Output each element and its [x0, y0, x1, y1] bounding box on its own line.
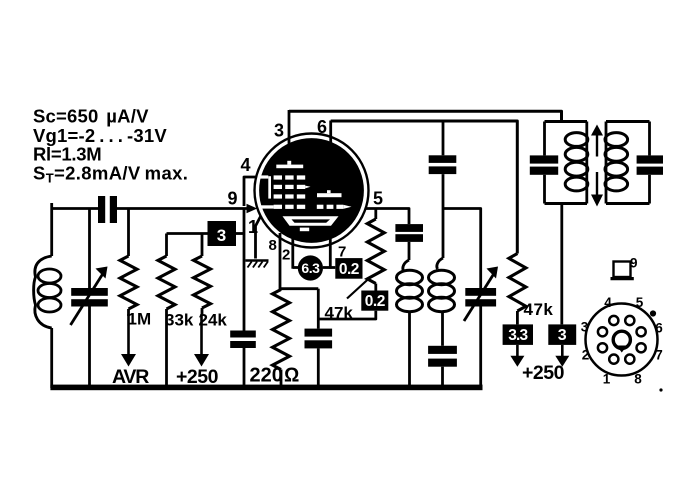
resistor 220	[273, 290, 290, 389]
box 3.3 mA	[503, 324, 533, 345]
svg-text:3.3: 3.3	[508, 327, 528, 344]
label 220	[250, 365, 283, 387]
label 47k screen	[524, 300, 554, 319]
svg-text:0.2: 0.2	[339, 261, 359, 278]
label +250 left	[176, 366, 219, 388]
box 0.2 osc grid	[361, 291, 388, 311]
variable capacitor C1 tuning	[71, 209, 108, 389]
wire anode rail	[289, 111, 562, 123]
capacitor IF secondary	[637, 122, 663, 204]
wire grid node vertical	[243, 209, 246, 331]
leader 47k	[347, 278, 370, 299]
inductor IF primary winding	[565, 122, 588, 204]
label pin 7	[338, 244, 346, 261]
box 0.2 heater	[335, 258, 362, 279]
wire osc node	[443, 209, 481, 289]
inductor osc left winding	[397, 242, 423, 388]
svg-text:3: 3	[217, 226, 226, 245]
pin 9 arrowhead	[247, 204, 258, 213]
svg-text:Rl=1.3M: Rl=1.3M	[33, 144, 101, 165]
pin 6 lead	[329, 121, 332, 144]
wire screen rail	[331, 121, 518, 254]
tube socket bottom view	[586, 304, 658, 376]
svg-text:1: 1	[603, 372, 611, 387]
svg-text:6: 6	[655, 321, 663, 336]
svg-text:1: 1	[248, 217, 258, 237]
svg-text:5: 5	[636, 295, 644, 310]
arrow to +250 left	[194, 314, 209, 367]
label +250 right	[522, 362, 565, 384]
label pin 9	[228, 189, 238, 209]
pin 1 lead	[256, 216, 262, 259]
svg-text:6: 6	[317, 117, 327, 137]
capacitor grid to ground	[230, 331, 256, 389]
box 3 mA right	[548, 324, 576, 345]
pin 8 lead	[279, 233, 282, 290]
pin 4 lead	[244, 177, 257, 206]
svg-text:33k: 33k	[165, 311, 194, 330]
wire cathode node	[317, 289, 320, 329]
svg-text:4: 4	[604, 295, 612, 310]
svg-text:3: 3	[581, 320, 589, 335]
label pin 1	[248, 217, 258, 237]
wire IF primary bottom	[545, 202, 588, 205]
inductor IF secondary winding	[605, 122, 628, 204]
resistor 1M grid leak	[120, 209, 137, 317]
svg-text:+250: +250	[522, 362, 565, 384]
svg-text:1M: 1M	[128, 310, 152, 329]
svg-text:220: 220	[250, 365, 283, 387]
svg-text:Ω: Ω	[284, 365, 299, 387]
svg-text:5: 5	[373, 189, 383, 209]
svg-text:8: 8	[634, 372, 642, 387]
wire rail2 drop	[442, 121, 445, 155]
svg-text:Sc=650 µA/V: Sc=650 µA/V	[33, 106, 149, 127]
ground bus	[50, 385, 482, 391]
pin 7 lead	[329, 238, 332, 269]
svg-text:2: 2	[282, 247, 290, 264]
heater circle 6.3	[298, 255, 323, 280]
label pin 8	[269, 237, 277, 254]
label 24k	[199, 311, 228, 330]
svg-text:4: 4	[241, 155, 251, 175]
arrow IF tuning	[591, 125, 603, 207]
capacitor osc series	[395, 224, 423, 242]
inductor L1 antenna coil	[34, 203, 61, 388]
socket pin labels	[581, 295, 664, 387]
svg-text:8: 8	[269, 237, 277, 254]
wire pin 5	[366, 209, 409, 225]
arrow to AVR	[121, 314, 136, 367]
capacitor cathode bypass	[305, 329, 333, 388]
wire box3 to grid node	[236, 232, 244, 235]
tube internal electrodes	[260, 161, 352, 231]
capacitor osc padder	[428, 346, 457, 388]
svg-text:47k: 47k	[524, 300, 554, 319]
svg-text:47k: 47k	[325, 304, 354, 323]
label AVR	[112, 366, 149, 388]
inductor osc right winding	[429, 258, 455, 346]
top cap symbol	[611, 262, 634, 279]
pin 2 lead	[291, 236, 294, 269]
svg-text:7: 7	[338, 244, 346, 261]
label pin 6	[317, 117, 327, 137]
svg-text:0.2: 0.2	[365, 293, 385, 310]
wire IF primary top	[545, 120, 588, 123]
wire 47k bottom to cathode node	[318, 311, 376, 319]
svg-text:ST=2.8mA/V max.: ST=2.8mA/V max.	[33, 163, 188, 186]
label pin 3	[274, 121, 284, 141]
arrow to +250 mid	[510, 345, 524, 367]
variable capacitor osc tuning	[464, 267, 498, 389]
svg-text:9: 9	[228, 189, 238, 209]
resistor 33k	[158, 234, 175, 389]
label pin 5	[373, 189, 383, 209]
wire pin8 branch	[280, 287, 318, 290]
svg-text:6.3: 6.3	[301, 260, 320, 276]
arrow to +250 right	[555, 345, 569, 367]
svg-text:3: 3	[274, 121, 284, 141]
wire grid input top	[52, 207, 248, 210]
tube V1 heptode envelope	[255, 134, 369, 248]
wire heater left	[293, 266, 299, 269]
capacitor C2 coupling	[98, 196, 117, 223]
resistor 47k screen	[509, 254, 526, 325]
capacitor IF primary	[530, 122, 558, 204]
wire 33k 24k top	[167, 232, 208, 235]
label 1M	[128, 310, 152, 329]
wire heater right	[323, 266, 336, 269]
stray dot	[659, 388, 662, 391]
svg-text:24k: 24k	[199, 311, 228, 330]
label pin 2	[282, 247, 290, 264]
pin 3 lead	[288, 110, 291, 144]
label 47k osc	[325, 304, 354, 323]
svg-text:2: 2	[582, 348, 590, 363]
capacitor top feed	[429, 155, 457, 258]
svg-text:7: 7	[655, 348, 663, 363]
box 3 mA left	[208, 221, 237, 246]
label pin 4	[241, 155, 251, 175]
svg-text:3: 3	[558, 327, 567, 344]
resistor 47k osc grid	[367, 209, 384, 292]
wire IF primary to box	[560, 204, 563, 325]
label ohm	[284, 365, 299, 387]
label 33k	[165, 311, 194, 330]
label top cap 9	[630, 256, 638, 271]
svg-text:9: 9	[630, 256, 638, 271]
spec text	[33, 106, 188, 186]
wire IF secondary top	[606, 120, 650, 123]
resistor 24k	[194, 234, 211, 317]
wire IF secondary bottom	[606, 202, 650, 205]
ground pin 1	[246, 261, 269, 268]
